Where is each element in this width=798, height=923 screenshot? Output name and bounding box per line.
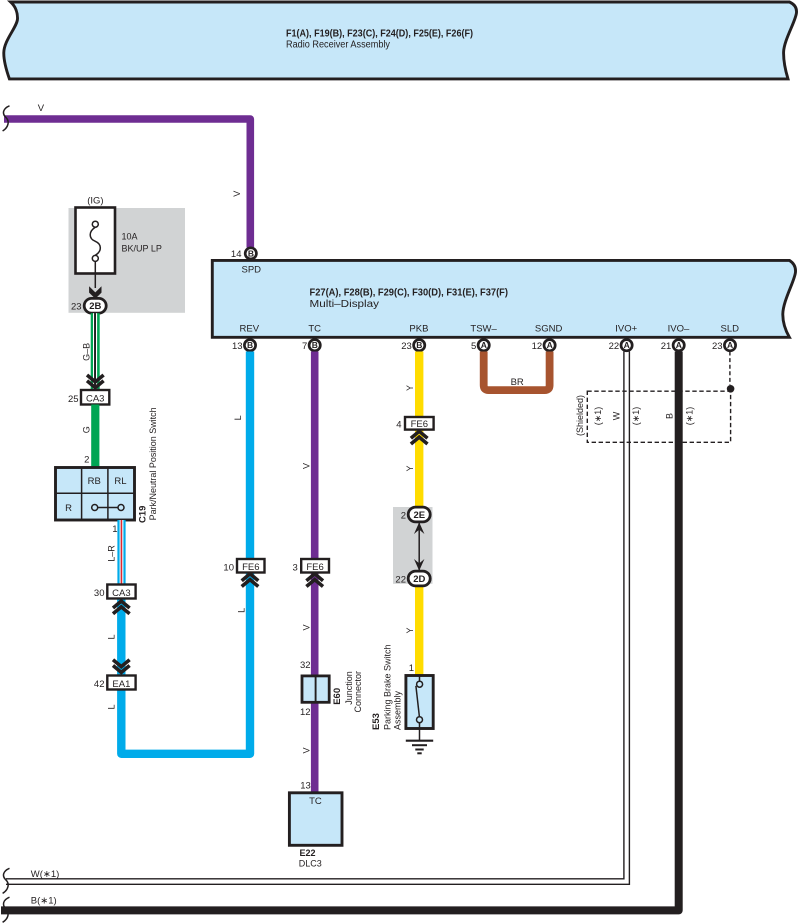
svg-text:23: 23 bbox=[712, 341, 723, 352]
svg-text:1: 1 bbox=[409, 663, 414, 674]
svg-text:B: B bbox=[247, 340, 253, 350]
connector 42 EA1 with chevron bbox=[94, 660, 136, 690]
junction dot shield to SLD bbox=[727, 385, 735, 393]
pin 5 (A) TSW- bbox=[470, 323, 497, 352]
svg-text:(IG): (IG) bbox=[87, 196, 103, 207]
svg-text:B: B bbox=[664, 413, 674, 419]
wire G green from CA3 to C19 pin 2 bbox=[82, 405, 100, 468]
shield dashed box (Shielded) bbox=[575, 391, 731, 442]
svg-text:RL: RL bbox=[114, 476, 126, 487]
svg-text:BR: BR bbox=[511, 377, 524, 388]
svg-text:E53: E53 bbox=[371, 713, 382, 730]
svg-text:FE6: FE6 bbox=[411, 419, 428, 430]
connector 22 (2D) bbox=[395, 571, 430, 586]
svg-text:10A: 10A bbox=[122, 232, 138, 242]
svg-text:13: 13 bbox=[232, 341, 243, 352]
wire L blue: C19 branch down, across bottom, up to FE6 and REV pin bbox=[107, 352, 251, 754]
svg-text:V: V bbox=[232, 191, 242, 197]
svg-text:32: 32 bbox=[300, 660, 311, 671]
svg-text:4: 4 bbox=[396, 420, 401, 431]
pin 12 (A) SGND bbox=[532, 323, 563, 352]
connector box F27/F28/F29/F30/F31/F37 Multi-Display bbox=[212, 260, 795, 337]
svg-text:V: V bbox=[302, 747, 312, 753]
svg-text:TC: TC bbox=[308, 323, 321, 334]
svg-text:(∗1): (∗1) bbox=[631, 407, 641, 426]
svg-text:F27(A), F28(B), F29(C), F30(D): F27(A), F28(B), F29(C), F30(D), F31(E), … bbox=[310, 288, 509, 299]
connector banner F1/F19/F23/F24/F25/F26 Radio Receiver Assembly bbox=[4, 2, 797, 79]
svg-text:DLC3: DLC3 bbox=[299, 859, 322, 869]
svg-text:23: 23 bbox=[401, 341, 412, 352]
svg-text:7: 7 bbox=[302, 341, 307, 352]
svg-text:FE6: FE6 bbox=[306, 562, 323, 573]
svg-text:Y: Y bbox=[405, 627, 415, 633]
svg-text:B: B bbox=[248, 248, 254, 258]
svg-text:IVO–: IVO– bbox=[668, 323, 690, 334]
svg-text:2: 2 bbox=[401, 510, 406, 521]
svg-text:3: 3 bbox=[293, 562, 298, 573]
wire Y yellow from PKB pin to parking brake switch bbox=[405, 352, 419, 676]
svg-text:12: 12 bbox=[532, 341, 543, 352]
switch E53 Parking Brake Switch Assembly pin 1 bbox=[371, 644, 433, 740]
svg-text:(Shielded): (Shielded) bbox=[575, 395, 585, 436]
connector 25 CA3 with chevron bbox=[68, 375, 109, 405]
svg-text:30: 30 bbox=[94, 588, 105, 599]
connector 2 (2E) bbox=[401, 507, 430, 522]
svg-text:A: A bbox=[727, 340, 733, 350]
svg-text:14: 14 bbox=[231, 249, 242, 260]
svg-text:L–R: L–R bbox=[106, 545, 116, 562]
wire L-R blue/red from C19 pin 1 to CA3 bbox=[106, 520, 125, 585]
svg-text:B: B bbox=[312, 340, 318, 350]
double arrow between 2E and 2D bbox=[414, 522, 424, 570]
wire B black (IVO-) down and across bottom bbox=[1, 352, 679, 911]
svg-text:(∗1): (∗1) bbox=[593, 407, 603, 426]
svg-text:Connector: Connector bbox=[353, 671, 363, 713]
connector block 2E/2D gray background bbox=[393, 507, 433, 584]
pin 23 (A) SLD bbox=[712, 323, 739, 352]
svg-text:21: 21 bbox=[661, 341, 672, 352]
svg-text:EA1: EA1 bbox=[112, 679, 130, 690]
pin 21 (A) IVO- bbox=[661, 323, 690, 352]
wire W white (IVO+) down and across bottom bbox=[6, 352, 629, 885]
svg-text:L: L bbox=[233, 415, 243, 420]
break symbol at left end of B wire bbox=[3, 897, 10, 922]
svg-text:SLD: SLD bbox=[721, 323, 740, 334]
svg-text:Assembly: Assembly bbox=[393, 690, 403, 730]
connector 10 FE6 with chevron bbox=[223, 559, 264, 587]
svg-text:R: R bbox=[65, 503, 72, 514]
svg-text:Y: Y bbox=[405, 385, 415, 391]
svg-text:TC: TC bbox=[309, 796, 322, 807]
svg-text:G–B: G–B bbox=[81, 343, 91, 361]
svg-text:2D: 2D bbox=[413, 574, 425, 585]
svg-text:A: A bbox=[547, 340, 553, 350]
connector 23 (2B) bbox=[71, 298, 106, 313]
svg-text:E22: E22 bbox=[300, 848, 316, 858]
svg-text:A: A bbox=[481, 340, 487, 350]
pin 14 (B) SPD of Multi-Display bbox=[231, 248, 261, 276]
svg-text:G: G bbox=[82, 426, 92, 433]
svg-text:2B: 2B bbox=[89, 301, 101, 312]
svg-text:B: B bbox=[416, 340, 422, 350]
svg-text:SPD: SPD bbox=[242, 265, 262, 276]
svg-text:5: 5 bbox=[471, 341, 476, 352]
svg-text:22: 22 bbox=[609, 341, 620, 352]
fuse 10A BK/UP LP bbox=[76, 208, 162, 274]
svg-text:(∗1): (∗1) bbox=[685, 407, 695, 426]
ground symbol below E53 bbox=[406, 741, 433, 754]
wire G-B green/black from 2B to CA3 bbox=[81, 313, 99, 390]
svg-text:IVO+: IVO+ bbox=[615, 323, 637, 334]
svg-text:42: 42 bbox=[94, 679, 105, 690]
svg-text:TSW–: TSW– bbox=[470, 323, 497, 334]
svg-text:CA3: CA3 bbox=[86, 394, 104, 405]
svg-text:2: 2 bbox=[84, 455, 89, 466]
svg-text:22: 22 bbox=[395, 574, 406, 585]
wire SLD dashed shield drain bbox=[729, 352, 731, 386]
svg-text:Park/Neutral Position Switch: Park/Neutral Position Switch bbox=[148, 407, 158, 520]
pin 23 (B) PKB bbox=[401, 323, 428, 352]
break symbol at left end of V wire bbox=[3, 106, 10, 131]
wire V violet from radio receiver to SPD pin bbox=[4, 119, 250, 248]
svg-text:L: L bbox=[237, 608, 247, 613]
svg-text:Multi–Display: Multi–Display bbox=[310, 299, 380, 310]
svg-text:W: W bbox=[611, 411, 621, 420]
junction connector E60 pins 32/12 bbox=[300, 660, 363, 718]
connector 30 CA3 with chevron bbox=[94, 585, 136, 614]
wire from fuse to 2B connector with arrow bbox=[89, 261, 101, 298]
svg-text:L: L bbox=[107, 704, 117, 709]
connector 4 FE6 with chevron bbox=[396, 417, 433, 444]
svg-text:25: 25 bbox=[68, 394, 79, 405]
connector 3 FE6 with chevron bbox=[293, 559, 329, 587]
svg-text:F1(A), F19(B), F23(C), F24(D),: F1(A), F19(B), F23(C), F24(D), F25(E), F… bbox=[286, 29, 473, 40]
switch C19 Park/Neutral Position Switch bbox=[56, 407, 158, 535]
pin 7 (B) TC bbox=[302, 323, 321, 352]
svg-text:SGND: SGND bbox=[535, 323, 563, 334]
svg-text:B(∗1): B(∗1) bbox=[31, 896, 57, 907]
pin 13 (B) REV bbox=[232, 323, 260, 352]
svg-text:L: L bbox=[107, 634, 117, 639]
svg-text:BK/UP LP: BK/UP LP bbox=[122, 244, 162, 254]
svg-text:A: A bbox=[624, 340, 630, 350]
svg-text:FE6: FE6 bbox=[242, 562, 259, 573]
svg-text:RB: RB bbox=[88, 476, 101, 487]
svg-text:E60: E60 bbox=[332, 688, 343, 705]
svg-text:Radio Receiver Assembly: Radio Receiver Assembly bbox=[286, 40, 390, 51]
wire V violet from TC pin to DLC3 bbox=[302, 352, 315, 793]
svg-text:W(∗1): W(∗1) bbox=[31, 869, 60, 880]
svg-text:Y: Y bbox=[405, 465, 415, 471]
svg-text:PKB: PKB bbox=[409, 323, 428, 334]
svg-text:12: 12 bbox=[300, 707, 311, 718]
svg-text:2E: 2E bbox=[413, 510, 425, 521]
connector E22 DLC3 pin 13 TC bbox=[289, 781, 342, 869]
svg-text:Parking Brake Switch: Parking Brake Switch bbox=[383, 644, 393, 730]
pin 22 (A) IVO+ bbox=[609, 323, 638, 352]
fuse block background bbox=[69, 208, 186, 313]
svg-text:REV: REV bbox=[240, 323, 260, 334]
svg-text:V: V bbox=[302, 624, 312, 630]
svg-text:CA3: CA3 bbox=[112, 588, 130, 599]
svg-text:10: 10 bbox=[223, 562, 234, 573]
svg-text:13: 13 bbox=[300, 781, 311, 792]
svg-text:A: A bbox=[676, 340, 682, 350]
svg-text:1: 1 bbox=[112, 524, 117, 535]
svg-text:23: 23 bbox=[71, 302, 82, 313]
break symbol at left end of W wire bbox=[3, 868, 10, 893]
svg-text:V: V bbox=[302, 463, 312, 469]
wire BR brown jumper between TSW- and SGND bbox=[484, 352, 550, 391]
svg-text:V: V bbox=[38, 103, 45, 114]
